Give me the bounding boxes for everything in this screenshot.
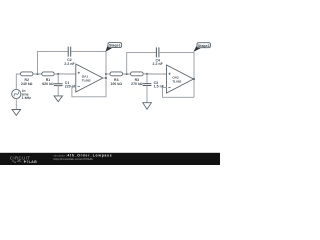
ground for V1 xyxy=(12,110,21,116)
ground for C3 xyxy=(143,103,152,110)
svg-text:2.2 nF: 2.2 nF xyxy=(153,62,163,66)
resistor R4 xyxy=(110,72,123,76)
wire V1 to ground xyxy=(15,99,17,110)
label R1 620 kOhm xyxy=(42,78,54,86)
wire OA2 feedback loop xyxy=(163,87,195,97)
svg-text:TL082: TL082 xyxy=(172,79,181,83)
wire n3 up to C4 xyxy=(127,52,157,74)
wire R3 to op-amp OA2 xyxy=(143,73,166,75)
svg-text:240 kΩ: 240 kΩ xyxy=(21,82,33,86)
resistor R3 xyxy=(131,72,144,76)
label C1 220 pF xyxy=(65,81,76,89)
capacitor C1 xyxy=(54,74,63,96)
op-amp OA2 xyxy=(167,65,194,93)
label C4 2.2 nF xyxy=(153,59,163,67)
capacitor C4 xyxy=(156,47,159,57)
node stage2 rail tap xyxy=(105,73,107,75)
wire V1 top to R2 xyxy=(16,74,20,89)
capacitor C3 xyxy=(143,74,152,103)
capacitor C2 xyxy=(68,47,71,57)
label R4 100 kOhm xyxy=(111,78,123,86)
svg-text:1 kHz: 1 kHz xyxy=(22,96,31,100)
CircuitLab logo xyxy=(10,155,37,164)
svg-text:LAB: LAB xyxy=(29,160,38,164)
wire R1 to op-amp xyxy=(54,73,76,75)
resistor R2 xyxy=(21,72,34,76)
label OA2 TL082 xyxy=(172,76,181,84)
wire C2 to output vertical xyxy=(71,51,106,53)
ground for C1 xyxy=(54,96,63,102)
svg-text:CIRCUIT: CIRCUIT xyxy=(10,155,31,160)
node n2 junction xyxy=(57,73,59,75)
node n1 junction xyxy=(37,73,39,75)
node OA2 output xyxy=(193,78,195,80)
label C2 2.2 nF xyxy=(64,58,74,66)
wire OA1 feedback loop xyxy=(72,52,106,97)
wire R2 to R1 xyxy=(33,73,42,75)
wire R4 to R3 xyxy=(123,73,131,75)
label V1 "In sine 1 kHz" xyxy=(22,89,31,100)
svg-text:http://circuitlab.com/c/57tb4k: http://circuitlab.com/c/57tb4k xyxy=(54,157,94,161)
svg-text:2.2 nF: 2.2 nF xyxy=(64,62,74,66)
wire n1 up to C2 xyxy=(38,52,69,74)
node n3 junction xyxy=(126,73,128,75)
svg-text:100 kΩ: 100 kΩ xyxy=(111,82,123,86)
label C3 1.5 nF xyxy=(154,81,164,89)
node n4 junction xyxy=(146,73,148,75)
op-amp OA1 xyxy=(76,64,103,92)
label R2 240 kOhm xyxy=(21,78,33,86)
voltage source V1 xyxy=(12,89,21,98)
wire OA1 output stub xyxy=(103,77,106,79)
resistor R1 xyxy=(42,72,54,76)
svg-text:270 kΩ: 270 kΩ xyxy=(131,82,143,86)
svg-text:TL082: TL082 xyxy=(82,78,91,82)
label OA1 TL082 xyxy=(82,75,91,83)
node OA1 output xyxy=(105,77,107,79)
wire to R4 xyxy=(106,73,110,75)
svg-text:Stage2: Stage2 xyxy=(198,44,210,48)
label R3 270 kOhm xyxy=(131,78,143,86)
wire C4 to stage2 output vertical xyxy=(159,52,194,97)
svg-text:620 kΩ: 620 kΩ xyxy=(42,82,54,86)
net flag Stage2 xyxy=(193,43,210,52)
net flag Stage1 xyxy=(105,43,121,52)
svg-text:Stage1: Stage1 xyxy=(109,44,121,48)
watermark bar xyxy=(0,153,220,165)
